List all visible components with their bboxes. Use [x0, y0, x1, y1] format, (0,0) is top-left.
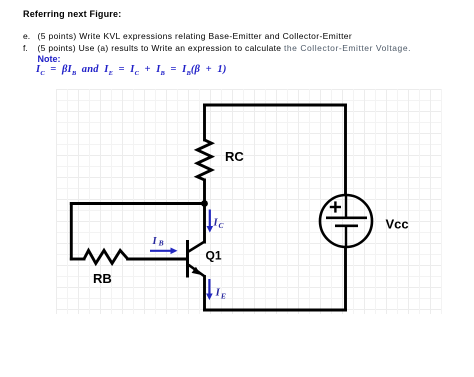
svg-text:E: E — [220, 292, 226, 301]
svg-text:I: I — [215, 286, 221, 298]
svg-text:I: I — [152, 236, 158, 247]
svg-text:RB: RB — [93, 271, 112, 286]
svg-text:Q1: Q1 — [206, 249, 222, 263]
svg-text:RC: RC — [225, 149, 244, 164]
svg-text:B: B — [158, 239, 164, 248]
svg-text:C: C — [219, 221, 225, 230]
svg-text:Vcc: Vcc — [386, 217, 409, 232]
